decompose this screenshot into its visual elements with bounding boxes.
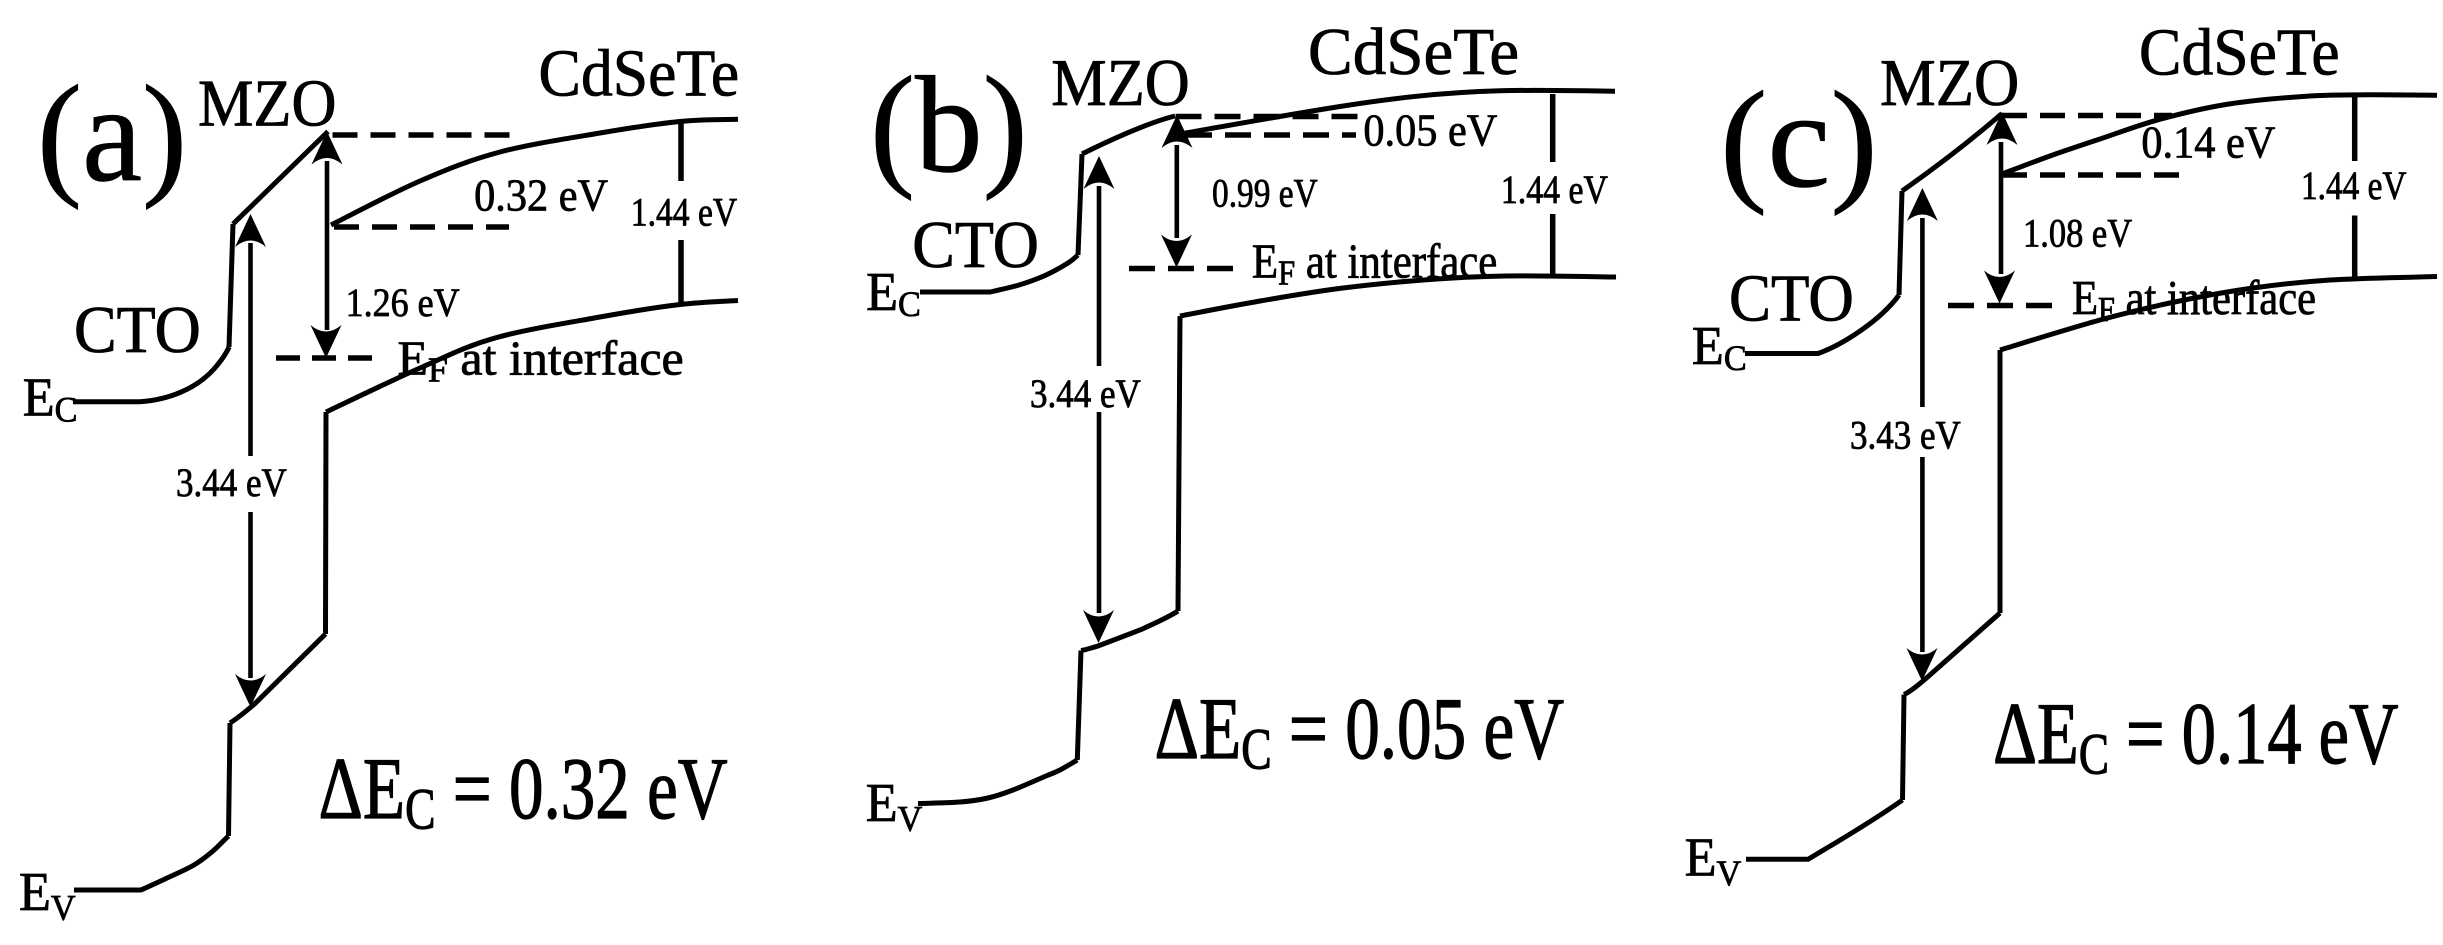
wire CTO/MZO valence band step riser (b) [1077,651,1081,761]
dashed line MZO peak level (c) [2002,113,2172,119]
arrowhead down 0.99 eV (b) [1161,235,1192,268]
wire CdSeTe valence band (c) [2000,277,2437,351]
svg-text:CdSeTe: CdSeTe [539,37,740,111]
svg-text:EC: EC [23,366,78,429]
arrowhead up 3.44 eV (a) [235,214,266,247]
wire CTO/MZO conduction band step riser (a) [229,224,233,347]
svg-text:ΔEC = 0.05 eV: ΔEC = 0.05 eV [1155,680,1565,782]
arrow shaft 0.99 eV (b) [1175,145,1180,238]
wire MZO valence band slope (c) [1904,613,2000,695]
svg-text:CdSeTe: CdSeTe [2139,16,2340,90]
svg-text:EF at interface: EF at interface [398,331,684,389]
dashed line EF at interface (b) [1129,266,1240,272]
wire CTO/MZO valence band step riser (a) [229,723,231,836]
svg-text:3.44 eV: 3.44 eV [1030,373,1141,417]
svg-text:ΔEC = 0.14 eV: ΔEC = 0.14 eV [1993,686,2399,787]
arrow shaft 3.43 eV MZO gap (c) [1920,218,1925,652]
arrowhead down 3.44 eV (a) [235,674,266,707]
svg-text:1.44 eV: 1.44 eV [1501,168,1608,212]
svg-text:CTO: CTO [1729,262,1854,336]
Eg bar CdSeTe 1.44 eV (c) [2352,95,2358,278]
dashed line CdSeTe CB edge at interface (b) [1186,132,1356,138]
wire MZO valence band slope (a) [230,634,326,723]
svg-text:3.44 eV: 3.44 eV [176,462,287,506]
svg-text:(a): (a) [37,57,187,211]
dashed line CdSeTe CB edge at interface (c) [2002,172,2183,178]
svg-text:0.05 eV: 0.05 eV [1363,105,1497,156]
wire CdSeTe conduction band (a) [331,119,738,225]
wire CdSeTe conduction band (c) [2002,95,2437,174]
dashed line MZO peak level (b) [1176,114,1359,120]
wire CTO/MZO conduction band step riser (c) [1899,191,1902,295]
arrowhead up 0.99 eV (b) [1162,115,1193,148]
wire MZO conduction band spike (a) [233,132,328,225]
wire CTO valence band Ev (a) [74,836,229,890]
wire MZO conduction band (b) [1082,116,1175,154]
arrow shaft 3.44 eV MZO gap (a) [248,243,253,678]
svg-text:MZO: MZO [1051,45,1189,120]
Eg bar CdSeTe 1.44 eV (a) [678,119,684,306]
svg-text:1.44 eV: 1.44 eV [631,190,738,234]
wire CdSeTe valence band (a) [326,301,738,413]
svg-text:1.26 eV: 1.26 eV [346,282,460,326]
wire CTO valence band Ev (c) [1746,800,1903,859]
wire MZO/CdSeTe valence band step riser (b) [1178,316,1180,611]
svg-text:ΔEC = 0.32 eV: ΔEC = 0.32 eV [319,741,728,842]
arrowhead up 1.08 eV (c) [1987,112,2018,145]
svg-text:(c): (c) [1720,64,1878,217]
dashed line MZO peak level (a) [333,132,512,138]
wire MZO/CdSeTe valence band step riser (a) [323,412,329,634]
svg-text:EV: EV [866,772,923,839]
arrow shaft 1.08 eV (c) [1999,142,2004,274]
wire CdSeTe conduction band (b) [1180,90,1615,134]
wire CdSeTe valence band (b) [1180,276,1616,316]
dashed line EF at interface (c) [1948,303,2060,309]
wire CTO conduction band Ec (b) [920,255,1078,292]
arrowhead down 3.44 eV (b) [1083,610,1114,643]
svg-text:EV: EV [1685,826,1742,893]
wire MZO/CdSeTe valence band step riser (c) [1998,350,2003,613]
svg-text:EF at interface: EF at interface [1252,234,1497,293]
svg-text:0.32 eV: 0.32 eV [474,170,608,221]
arrowhead up 0.32/1.26 eV (a) [312,132,343,165]
arrowhead up 3.43 eV (c) [1907,188,1938,221]
svg-text:1.08 eV: 1.08 eV [2023,212,2132,256]
svg-text:3.43 eV: 3.43 eV [1850,414,1961,458]
arrow shaft 1.26+0.32 eV (a) [325,161,330,330]
arrowhead up 3.44 eV (b) [1084,156,1115,189]
arrowhead down 0.32/1.26 eV (a) [311,325,342,358]
svg-text:EV: EV [19,861,76,928]
arrow shaft 3.44 eV MZO gap (b) [1097,186,1102,613]
svg-text:0.99 eV: 0.99 eV [1212,171,1318,216]
svg-text:MZO: MZO [1880,46,2019,120]
arrowhead down 1.08 eV (c) [1984,271,2015,304]
svg-text:0.14 eV: 0.14 eV [2141,117,2275,168]
svg-text:MZO: MZO [198,66,336,141]
wire CTO valence band Ev (b) [918,760,1077,804]
wire MZO conduction band (c) [1902,114,2002,192]
svg-text:EF at interface: EF at interface [2072,270,2316,329]
wire CTO/MZO valence band step riser (c) [1903,695,1905,801]
svg-text:CTO: CTO [74,294,201,368]
svg-text:1.44 eV: 1.44 eV [2301,163,2407,208]
Eg bar CdSeTe 1.44 eV (b) [1550,94,1556,278]
svg-text:CdSeTe: CdSeTe [1308,15,1519,89]
arrowhead down 3.43 eV (c) [1907,648,1938,681]
wire CTO conduction band Ec (c) [1745,295,1899,354]
dashed line EF at interface (a) [276,355,382,361]
wire CTO/MZO conduction band step riser (b) [1078,154,1082,255]
wire CTO conduction band Ec (a) [73,347,229,402]
svg-text:(b): (b) [870,48,1028,202]
wire MZO valence band slope (b) [1081,611,1178,651]
svg-text:CTO: CTO [912,209,1039,283]
dashed line CdSeTe CB edge at interface (a) [334,224,509,230]
